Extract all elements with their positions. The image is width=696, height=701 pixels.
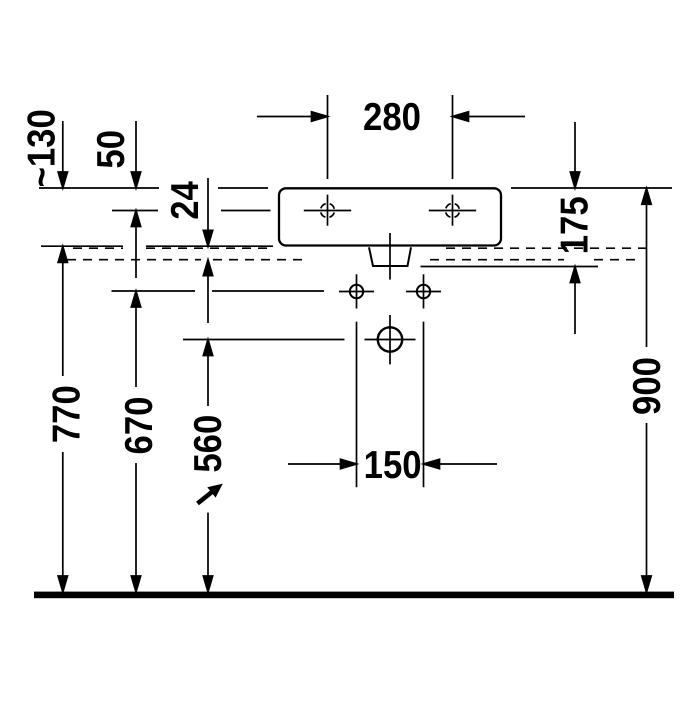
dim 670 line: [131, 291, 140, 592]
dim 175 upper line: [570, 122, 579, 188]
svg-text:670: 670: [118, 397, 161, 455]
basin bottom reference line y246: [41, 245, 273, 247]
top reference line y188: [39, 187, 672, 189]
dim 280 left arrow: [257, 112, 328, 121]
fixing hole axis line y291: [112, 290, 325, 292]
fixing hole right: [406, 274, 441, 308]
dim 770 line: [58, 246, 67, 592]
svg-text:50: 50: [90, 130, 133, 169]
extension line 280 left: [327, 95, 329, 179]
extension line 150 right: [423, 322, 425, 488]
dim 24 upper line: [203, 178, 212, 246]
fixing hole left: [339, 274, 374, 308]
drain axis line y339: [183, 339, 345, 341]
svg-text:900: 900: [626, 357, 669, 415]
dim 24 lower line: [203, 260, 212, 323]
dim 50 lower line: [131, 211, 140, 279]
dim 50 line: [131, 121, 140, 188]
svg-text:150: 150: [364, 444, 422, 487]
tap hole left crosshair: [304, 195, 351, 226]
centerline vertical node: [389, 233, 391, 280]
extension line 280 right: [452, 95, 454, 179]
dim 150 left arrow: [288, 459, 357, 468]
siphon bottom reference line y266: [421, 266, 599, 268]
dim 900 line: [642, 188, 651, 592]
dim ~130 line: [58, 121, 67, 188]
dim 150 right arrow: [424, 459, 498, 468]
svg-text:560: 560: [187, 415, 230, 473]
extension line 150 left: [356, 322, 358, 488]
towel rail bottom dashed: [67, 259, 641, 261]
dim 560 line: [203, 340, 212, 593]
dim 175 lower line: [570, 267, 579, 335]
dim 280 right arrow: [453, 112, 526, 121]
basin outline: [279, 188, 501, 245]
floor line: [34, 592, 674, 599]
tap hole right crosshair: [429, 195, 476, 226]
svg-text:280: 280: [363, 96, 421, 139]
svg-text:770: 770: [46, 385, 89, 443]
svg-text:~130: ~130: [21, 109, 64, 187]
drain hole: [365, 315, 416, 364]
svg-text:175: 175: [553, 196, 596, 254]
view direction arrow: [198, 484, 223, 504]
tap axis line y210: [112, 210, 271, 212]
svg-text:24: 24: [164, 181, 207, 220]
siphon cover trapezoid: [369, 247, 411, 266]
towel rail top dashed: [73, 247, 653, 249]
arrowheads + dimension shafts: [58, 112, 651, 592]
